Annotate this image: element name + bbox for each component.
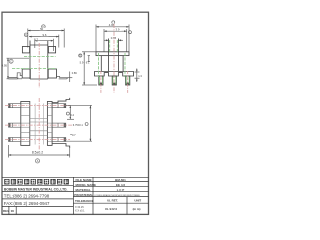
svg-text:0.7: 0.7 — [72, 133, 76, 137]
svg-text:UL 94V-0: UL 94V-0 — [105, 207, 118, 211]
svg-text:MODEL NAME: MODEL NAME — [76, 183, 96, 187]
svg-text:1.3: 1.3 — [138, 74, 142, 78]
svg-text:5.9: 5.9 — [80, 61, 84, 65]
svg-text:9.6: 9.6 — [43, 33, 47, 37]
svg-text:UNIT: UNIT — [134, 199, 141, 203]
svg-text:UL RET.: UL RET. — [107, 199, 118, 203]
svg-text:FILE NAME: FILE NAME — [76, 178, 92, 182]
svg-text:BOBBIN MASTER INDUSTRIAL CO.,L: BOBBIN MASTER INDUSTRIAL CO.,LTD. — [4, 187, 68, 191]
svg-text:8.7: 8.7 — [34, 37, 38, 41]
svg-text:C: C — [10, 59, 12, 63]
svg-text:00: 00 — [11, 209, 15, 213]
svg-text:A: A — [37, 159, 39, 163]
svg-text:3.9: 3.9 — [116, 28, 120, 32]
svg-text:EE 4.6: EE 4.6 — [116, 183, 125, 187]
svg-text:PIN MATERIAL: PIN MATERIAL — [74, 193, 93, 197]
svg-text:4.95: 4.95 — [2, 64, 8, 68]
svg-text:X.X ±0.1: X.X ±0.1 — [75, 209, 85, 212]
svg-text:8.5±0.2: 8.5±0.2 — [32, 151, 43, 155]
svg-text:(m m): (m m) — [133, 207, 141, 211]
svg-text:BM-601: BM-601 — [115, 178, 126, 182]
svg-text:3.4: 3.4 — [70, 113, 74, 117]
svg-text:C: C — [25, 33, 27, 37]
svg-text:6.1: 6.1 — [86, 61, 90, 65]
svg-text:REV: REV — [3, 209, 9, 213]
svg-text:FAX:(886 2) 2694-0947: FAX:(886 2) 2694-0947 — [4, 201, 50, 206]
svg-text:MATERIAL: MATERIAL — [76, 188, 91, 192]
svg-text:6.75±0.1: 6.75±0.1 — [73, 123, 84, 127]
svg-text:E: E — [79, 54, 81, 58]
svg-text:#C26800 BRASS PHOSPHOR BRONZE: #C26800 BRASS PHOSPHOR BRONZE TINNED — [94, 194, 141, 197]
svg-text:TEL:(886 2) 2694-7798: TEL:(886 2) 2694-7798 — [4, 193, 50, 198]
svg-text:TOLERANCE: TOLERANCE — [75, 199, 94, 203]
svg-text:L C P: L C P — [117, 188, 125, 192]
svg-text:0.89: 0.89 — [72, 71, 78, 75]
svg-text:50: 50 — [40, 27, 44, 31]
